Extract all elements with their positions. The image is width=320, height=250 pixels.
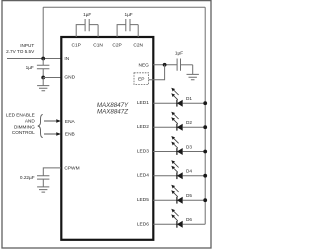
wire input riser bbox=[42, 7, 44, 58]
pin EP bbox=[134, 73, 149, 85]
svg-text:D2: D2 bbox=[186, 120, 192, 125]
svg-text:1µF: 1µF bbox=[175, 51, 183, 56]
capacitor C-NEG 1uF bbox=[177, 59, 193, 71]
svg-text:GND: GND bbox=[64, 75, 75, 81]
svg-text:D5: D5 bbox=[186, 193, 192, 198]
svg-text:EP: EP bbox=[138, 77, 144, 83]
wire top rail V+ bbox=[43, 6, 205, 8]
svg-text:D4: D4 bbox=[186, 169, 192, 174]
svg-text:LED4: LED4 bbox=[137, 173, 149, 179]
node bus dot 2 bbox=[203, 125, 207, 129]
svg-text:LED ENABLE: LED ENABLE bbox=[6, 113, 35, 118]
diode D6 bbox=[153, 209, 205, 228]
wire NEG bbox=[153, 64, 177, 66]
node bus dot 4 bbox=[203, 174, 207, 178]
wire ENA arrow bbox=[44, 120, 56, 122]
node bus dot 3 bbox=[203, 150, 207, 154]
wire ENB arrow bbox=[44, 133, 56, 135]
svg-text:LED2: LED2 bbox=[137, 124, 149, 130]
svg-text:D6: D6 bbox=[186, 217, 192, 222]
wire CPWM bbox=[43, 168, 61, 176]
svg-text:INPUT: INPUT bbox=[20, 43, 34, 48]
node IN junction bbox=[41, 57, 45, 61]
svg-text:LED5: LED5 bbox=[137, 197, 149, 203]
svg-text:AND: AND bbox=[25, 119, 36, 124]
svg-text:ENB: ENB bbox=[65, 131, 75, 137]
svg-text:C1P: C1P bbox=[72, 43, 81, 49]
svg-text:CONTROL: CONTROL bbox=[12, 130, 35, 135]
svg-text:D1: D1 bbox=[186, 96, 192, 101]
ground input bbox=[37, 78, 49, 91]
svg-text:IN: IN bbox=[64, 56, 69, 62]
diode D2 bbox=[153, 112, 205, 131]
svg-text:1µF: 1µF bbox=[83, 12, 91, 17]
svg-text:C2P: C2P bbox=[112, 43, 121, 49]
diode D3 bbox=[153, 136, 205, 155]
wire right LED bus bbox=[204, 7, 206, 224]
svg-text:0.22µF: 0.22µF bbox=[20, 175, 35, 180]
node NEG junction bbox=[163, 63, 167, 67]
diode D4 bbox=[153, 160, 205, 179]
capacitor C1 1uF flying bbox=[76, 19, 98, 37]
svg-text:2.7V TO 5.5V: 2.7V TO 5.5V bbox=[6, 49, 35, 54]
svg-text:LED1: LED1 bbox=[137, 100, 149, 106]
svg-text:LED6: LED6 bbox=[137, 221, 149, 227]
brace bbox=[38, 114, 43, 137]
node GND junction bbox=[41, 76, 45, 80]
border frame bbox=[2, 1, 211, 248]
svg-text:1µF: 1µF bbox=[125, 12, 133, 17]
node bus dot 1 bbox=[203, 101, 207, 105]
svg-text:C1N: C1N bbox=[93, 43, 103, 49]
svg-text:ENA: ENA bbox=[65, 119, 76, 125]
svg-text:D3: D3 bbox=[186, 144, 192, 149]
svg-text:NEG: NEG bbox=[138, 63, 149, 69]
diode D5 bbox=[153, 185, 205, 204]
diode D1 bbox=[153, 88, 205, 107]
wire INPUT to IN pin bbox=[7, 58, 61, 60]
svg-text:DIMMING: DIMMING bbox=[14, 124, 35, 129]
wire EP to NEG bbox=[149, 65, 165, 80]
svg-text:C2N: C2N bbox=[133, 43, 143, 49]
capacitor C2 1uF flying bbox=[117, 19, 138, 37]
IC U1 MAX8847 body bbox=[61, 37, 153, 240]
capacitor C-PWM 0.22uF bbox=[37, 176, 49, 187]
wire GND pin bbox=[43, 77, 61, 79]
capacitor C-IN 1uF bbox=[37, 59, 50, 78]
node bus dot 5 bbox=[203, 198, 207, 202]
svg-text:LED3: LED3 bbox=[137, 149, 149, 155]
ground CPWM bbox=[37, 187, 49, 192]
svg-text:MAX8847Z: MAX8847Z bbox=[97, 108, 128, 115]
svg-text:1µF: 1µF bbox=[26, 65, 34, 70]
ground NEG bbox=[187, 65, 199, 80]
svg-text:CPWM: CPWM bbox=[64, 166, 79, 172]
